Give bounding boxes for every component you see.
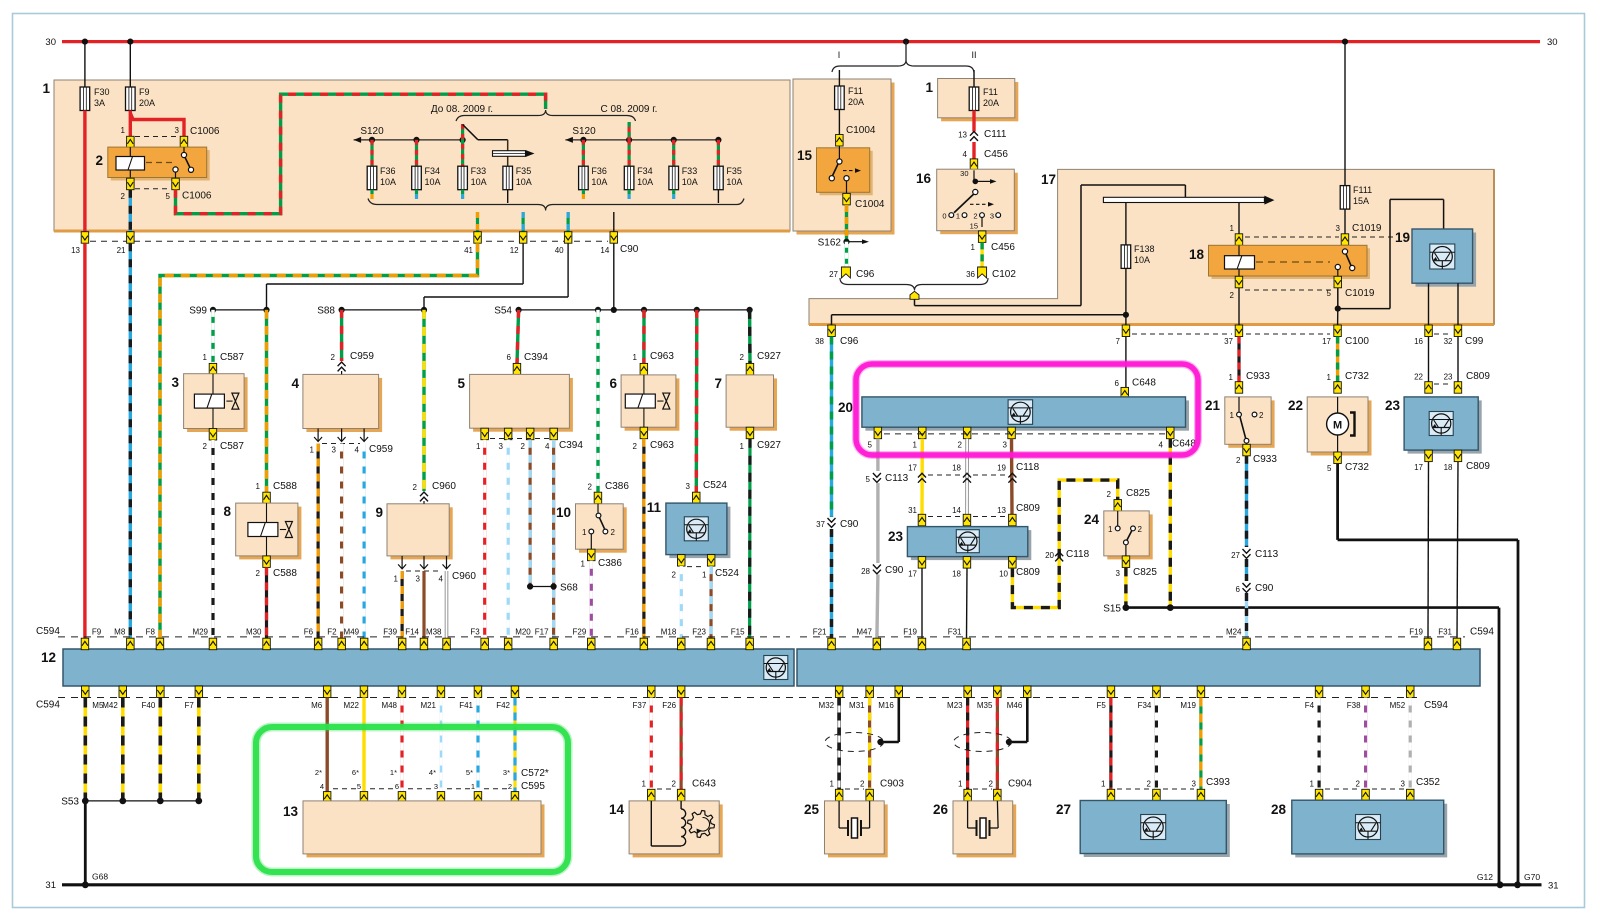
svg-text:F2: F2: [327, 628, 337, 637]
pin 3 C825: [1122, 556, 1130, 568]
label C96-27: [856, 269, 875, 280]
connector C809 dashed: [928, 516, 1006, 518]
dot S88 left: [339, 307, 345, 313]
svg-text:M20: M20: [515, 628, 531, 637]
svg-text:0: 0: [942, 211, 946, 220]
svg-text:M16: M16: [878, 701, 894, 710]
svg-text:2: 2: [331, 353, 336, 362]
ground G12: [1497, 881, 1504, 888]
svg-text:C809: C809: [1466, 461, 1490, 472]
svg-text:2: 2: [611, 528, 616, 537]
wire 23-17 to bus F19: [921, 568, 923, 638]
svg-text:I: I: [838, 50, 841, 60]
svg-text:20A: 20A: [848, 97, 864, 107]
svg-text:M30: M30: [246, 628, 262, 637]
pin 1 C352: [1315, 789, 1323, 801]
relay 2 switch: [173, 147, 194, 178]
svg-text:1: 1: [394, 575, 399, 584]
label 1 C386: [581, 558, 623, 569]
wire block9-3 to bus F14 (brown): [422, 571, 425, 639]
svg-text:1: 1: [1230, 224, 1235, 233]
pin 1 C643: [648, 789, 656, 801]
label 27 C113: [1231, 549, 1279, 560]
wire C90-6 to bus M24 (lightblue/black): [1245, 593, 1248, 639]
svg-text:F19: F19: [1409, 628, 1423, 637]
pin 2 C648: [963, 427, 971, 439]
svg-text:1: 1: [1310, 780, 1315, 789]
relay 2 coil: [116, 147, 145, 177]
svg-text:C524: C524: [703, 480, 727, 491]
svg-text:7: 7: [714, 376, 722, 391]
svg-text:M47: M47: [856, 628, 872, 637]
bus 12 bar right: [797, 649, 1480, 686]
wire bus30 to F111: [1344, 42, 1346, 186]
pin 17 C100: [1334, 325, 1342, 337]
pin 1 C1006: [127, 136, 135, 148]
wire S99 to block3 (green/white): [211, 310, 214, 364]
wire C648-2 to C809-14 (white): [965, 439, 969, 515]
svg-text:10A: 10A: [637, 177, 653, 187]
fuse F11 (block15): [835, 86, 845, 110]
label F138 10A: [1134, 244, 1155, 265]
svg-text:C959: C959: [369, 444, 393, 455]
pin block13-5: [360, 792, 368, 804]
wire F7 to S53 (yellow/black): [197, 698, 201, 801]
pin 3 C393: [1197, 789, 1205, 801]
svg-text:1: 1: [581, 560, 586, 569]
dot S120-2 F33: [671, 137, 677, 143]
box label 10: [556, 505, 571, 520]
svg-text:5: 5: [1327, 289, 1332, 298]
svg-text:F33: F33: [471, 166, 487, 176]
svg-text:M29: M29: [192, 628, 208, 637]
pin 2 C643: [677, 789, 685, 801]
label 17 C100: [1322, 336, 1369, 347]
svg-text:3: 3: [1192, 780, 1197, 789]
label C903: [830, 779, 905, 790]
svg-text:2*: 2*: [315, 768, 322, 777]
svg-text:1: 1: [1101, 780, 1106, 789]
wire block4-4 to bus M49 (lightblue/white): [363, 444, 366, 639]
box label 11: [647, 500, 662, 515]
wire M19 to C393-3 (green/orange): [1199, 698, 1202, 790]
svg-text:C96: C96: [840, 336, 859, 347]
node S15 line: [1126, 606, 1499, 609]
box label 23r: [1385, 398, 1401, 413]
svg-text:5: 5: [1327, 464, 1332, 473]
svg-text:S15: S15: [1103, 604, 1121, 615]
wire block4-3 to bus F2 (brown/white): [340, 444, 343, 639]
wire bus30 to F9: [129, 42, 131, 87]
fuse F35-2: [714, 166, 724, 190]
svg-text:1: 1: [256, 482, 261, 491]
label 27: [829, 270, 838, 279]
svg-text:17: 17: [908, 464, 917, 473]
label 6 C90: [1236, 583, 1274, 594]
label C393: [1101, 777, 1230, 789]
box label 3: [171, 375, 179, 390]
block 23 body: [907, 527, 1031, 561]
stub F33-2 bottom: [672, 190, 675, 199]
block 10 switch: [582, 504, 615, 549]
label pin1 relay18: [1230, 224, 1235, 233]
label C118 row: [908, 462, 1040, 473]
block 9 body: [387, 504, 453, 560]
dot S120-1 F36: [369, 137, 375, 143]
wire pin5 junction to C100-17: [1337, 309, 1339, 325]
wire into block9: [423, 501, 425, 504]
pin 6 C394: [513, 363, 521, 375]
node S120 line group2: [565, 137, 718, 143]
pin 41: [474, 232, 482, 244]
svg-text:1: 1: [913, 440, 918, 449]
pin 1 C904: [964, 789, 972, 801]
svg-text:1: 1: [203, 353, 208, 362]
wire F5 to C393-1 (black/red): [1109, 698, 1112, 790]
label 2 C587: [203, 441, 245, 452]
connector C113-27 chevrons: [1243, 549, 1251, 558]
ignition switch 16 body: [937, 169, 1018, 234]
wire block11-2 to bus M18 (lightblue/white): [680, 566, 683, 638]
svg-text:10A: 10A: [1134, 255, 1150, 265]
svg-text:F15: F15: [731, 628, 745, 637]
box label 21: [1205, 398, 1221, 413]
pin 3 C1019: [1341, 234, 1349, 246]
wire M35 to C904-2 (brown/red): [996, 698, 999, 790]
label 28 C90: [861, 565, 904, 576]
label 1 C927: [740, 440, 782, 451]
pin 17 C809b: [918, 557, 926, 569]
box label 8: [223, 504, 231, 519]
fuse F35-1: [503, 166, 513, 190]
box label 26: [933, 802, 949, 817]
wire pin14 to S54: [613, 243, 615, 310]
wire M6 to block13 (brown): [326, 698, 329, 793]
svg-text:F9: F9: [92, 628, 102, 637]
wire C933-2 to C113-27 (blue/black): [1245, 456, 1248, 547]
wire C90-28 to bus M47 (gray): [877, 575, 878, 639]
pin 1 C587: [209, 363, 217, 375]
svg-text:3: 3: [1401, 780, 1406, 789]
svg-text:F26: F26: [662, 701, 676, 710]
label C90 box1: [620, 244, 639, 255]
wire block3 to bus M29 (black/white): [211, 440, 214, 639]
pin 13: [81, 232, 89, 244]
svg-text:2: 2: [1259, 411, 1264, 420]
svg-text:C732: C732: [1345, 371, 1369, 382]
svg-text:F3: F3: [470, 628, 480, 637]
box label 20: [838, 400, 853, 415]
wire S88 to block9 (green/yellow): [422, 310, 425, 491]
label F36-1: [380, 166, 396, 187]
box label 1: [42, 81, 50, 96]
dot S120-2 F34: [626, 137, 632, 143]
label S54: [494, 306, 512, 317]
svg-text:3: 3: [1003, 440, 1008, 449]
svg-text:3: 3: [434, 782, 438, 791]
label C1004 bottom: [855, 199, 885, 210]
wire pentagon to block17: [915, 185, 1186, 306]
stub F34-2 bottom: [627, 190, 630, 199]
svg-text:M38: M38: [426, 628, 442, 637]
svg-text:5: 5: [166, 192, 171, 201]
pin 2 C963: [640, 427, 648, 439]
svg-text:28: 28: [1271, 802, 1287, 817]
label pin1: [121, 126, 126, 135]
junction dot F111 tap: [1342, 39, 1348, 45]
box label 7: [714, 376, 722, 391]
box label 16: [916, 171, 932, 186]
box label 12: [41, 650, 56, 665]
svg-text:18: 18: [1189, 247, 1205, 262]
junction dot pin5: [1335, 306, 1341, 312]
svg-text:4: 4: [1159, 440, 1164, 449]
pin 2 C588: [263, 556, 271, 568]
fuse F36-1: [367, 166, 377, 190]
svg-text:S54: S54: [494, 306, 512, 317]
connector C594 bottom dashed: [58, 697, 1420, 699]
svg-text:F41: F41: [459, 701, 473, 710]
svg-text:6: 6: [395, 782, 399, 791]
connector C1019 bottom dashed: [1245, 289, 1332, 291]
wire brace-I to F11-15: [838, 70, 840, 86]
svg-text:2: 2: [672, 571, 677, 580]
label F36-2: [591, 166, 607, 187]
connector C394 bottom dashed: [490, 438, 549, 440]
svg-text:C1006: C1006: [182, 191, 212, 202]
svg-text:До 08. 2009 г.: До 08. 2009 г.: [431, 104, 493, 115]
wire pin41 to bus F8 (green/orange): [160, 243, 478, 638]
label S162: [818, 238, 842, 249]
box label 4: [291, 376, 299, 391]
label 2 C933: [1236, 454, 1277, 465]
label 4 C456: [963, 149, 1009, 160]
svg-text:31: 31: [45, 880, 56, 891]
label 1 C456 bottom: [971, 242, 1016, 253]
svg-text:5: 5: [866, 475, 871, 484]
label C524 bottom: [672, 568, 740, 580]
svg-text:C394: C394: [559, 440, 583, 451]
svg-text:F40: F40: [142, 701, 156, 710]
svg-text:M35: M35: [977, 701, 993, 710]
svg-text:18: 18: [1444, 463, 1453, 472]
pin 2 C386: [594, 492, 602, 504]
svg-text:5*: 5*: [466, 768, 473, 777]
svg-text:12: 12: [41, 650, 56, 665]
svg-text:37: 37: [1224, 337, 1233, 346]
svg-text:S162: S162: [818, 238, 842, 249]
pin 5 C1006: [172, 178, 180, 190]
svg-text:F31: F31: [948, 628, 962, 637]
label F33-2: [682, 166, 698, 187]
label C594 bottom-right: [1424, 700, 1448, 711]
wire block5-4 to bus F17 (brown/lightblue): [552, 440, 555, 639]
junction dot F30 tap: [82, 39, 88, 45]
brace group 2: [546, 110, 636, 121]
label C809 row: [908, 503, 1040, 515]
svg-text:2: 2: [1236, 456, 1241, 465]
pin C394-3: [504, 428, 512, 440]
dot S53 c: [157, 798, 164, 805]
junction dot brace I/II tap: [903, 39, 909, 45]
label S15: [1103, 604, 1121, 615]
wire F11 to C111 (red): [972, 111, 975, 132]
dot S53 b: [119, 798, 126, 805]
svg-text:6*: 6*: [352, 768, 359, 777]
stub F33-1 bottom: [461, 190, 464, 199]
svg-text:C1019: C1019: [1352, 223, 1382, 234]
block 22 body: [1307, 397, 1371, 456]
connector C648 bottom dashed: [884, 433, 1165, 435]
label F34-1: [425, 166, 441, 187]
wire S15 to G12 (ground): [1498, 608, 1501, 885]
pin 16 C99: [1425, 325, 1433, 337]
pin 18 C809r: [1454, 450, 1462, 462]
relay box housing (block 15 carrier): [793, 79, 895, 235]
fuse F34-2: [624, 166, 634, 190]
label C809 bottom: [908, 567, 1040, 579]
svg-text:C594: C594: [1470, 627, 1494, 638]
svg-text:22: 22: [1288, 398, 1303, 413]
wire C648-1 to C809-31 (yellow): [920, 439, 924, 515]
block 25 sensor element: [839, 801, 870, 838]
block 27 body: [1080, 801, 1230, 858]
pin 2 C825: [1114, 500, 1122, 512]
box label 15: [797, 148, 813, 163]
dot S120-2 F35: [715, 137, 721, 143]
wire S54 to block7 (green/black): [748, 310, 752, 364]
connector C903 dashed: [845, 788, 864, 790]
wire M16 shield drain: [877, 698, 899, 746]
wire pin12 to S99: [267, 243, 524, 310]
svg-text:1: 1: [925, 80, 933, 95]
svg-text:C456: C456: [991, 242, 1015, 253]
wire pin2 to box edge (blue/black): [129, 190, 132, 233]
connector C352 dashed: [1325, 788, 1404, 790]
wire C100-7 to C648-6: [1125, 337, 1127, 388]
label 13 C111: [958, 129, 1007, 140]
label F33-1: [471, 166, 487, 187]
svg-text:1: 1: [633, 353, 638, 362]
relay 18 switch: [1335, 249, 1355, 276]
svg-text:C594: C594: [36, 626, 60, 637]
node S54 line: [519, 309, 750, 311]
svg-text:13: 13: [283, 804, 299, 819]
pin 13 C809: [1009, 514, 1017, 526]
bus 12 icon: [764, 656, 788, 680]
svg-text:F16: F16: [625, 628, 639, 637]
svg-text:C90: C90: [840, 519, 859, 530]
label 12: [510, 246, 519, 255]
svg-text:C960: C960: [432, 481, 456, 492]
fuse F111: [1340, 186, 1350, 210]
wire F30 to pin13 (red): [83, 111, 86, 233]
svg-text:1: 1: [740, 442, 745, 451]
svg-text:37: 37: [816, 520, 825, 529]
wire M5 to S53 (yellow/black): [84, 698, 88, 801]
pin 17 C809r: [1425, 450, 1433, 462]
svg-text:3: 3: [332, 446, 337, 455]
svg-text:2: 2: [95, 153, 103, 168]
block 10 body: [576, 504, 627, 553]
wire pin38 to F138 junction: [832, 315, 1126, 325]
svg-text:C96: C96: [856, 269, 875, 280]
svg-text:1: 1: [121, 126, 126, 135]
svg-text:C927: C927: [757, 440, 781, 451]
switch 15 contacts: [829, 146, 861, 193]
pin 1 C524b: [707, 555, 715, 567]
svg-text:F11: F11: [983, 87, 998, 97]
svg-text:1: 1: [971, 243, 976, 252]
label 2 C927: [740, 351, 782, 362]
wire block5-3 to bus M20 (lightblue/white): [507, 440, 510, 639]
label 22 23 C809: [1414, 371, 1490, 382]
connector C1019 top dashed: [1245, 236, 1395, 238]
connector C90-6 chevrons: [1243, 583, 1251, 592]
box label 28: [1271, 802, 1287, 817]
svg-text:5: 5: [457, 376, 465, 391]
label C1006 top: [190, 126, 220, 137]
svg-text:4: 4: [291, 376, 299, 391]
svg-text:M18: M18: [661, 628, 677, 637]
block 24 body: [1104, 511, 1153, 560]
relay 18 coil: [1225, 245, 1255, 276]
pin 14: [610, 232, 618, 244]
wire bus30 to F30: [84, 42, 86, 87]
svg-text:6: 6: [1115, 379, 1120, 388]
svg-text:4: 4: [545, 442, 550, 451]
svg-text:3: 3: [686, 482, 691, 491]
wire brace to pin12: [521, 212, 524, 233]
connector C643 dashed: [657, 788, 675, 790]
svg-text:23: 23: [888, 529, 904, 544]
svg-text:S88: S88: [317, 306, 335, 317]
svg-text:M49: M49: [344, 628, 360, 637]
node S99 line: [213, 309, 267, 311]
label F35-2: [726, 166, 742, 187]
bus 12 top pin labels: [92, 628, 1453, 637]
svg-text:4: 4: [355, 446, 360, 455]
svg-text:C111: C111: [984, 129, 1007, 140]
svg-text:C99: C99: [1465, 336, 1484, 347]
label F30 3A: [94, 87, 110, 108]
connector C959-2 chevrons: [338, 362, 346, 371]
box label 14: [609, 802, 625, 817]
wire F41 to block13 (blue/white): [476, 698, 479, 793]
wire M31 to C903-2 (brown/yellow): [868, 698, 871, 790]
box label 19: [1395, 230, 1410, 245]
svg-text:1: 1: [1230, 411, 1235, 420]
block 6 solenoid valve: [625, 375, 670, 427]
svg-text:18: 18: [952, 464, 961, 473]
label II: [971, 50, 976, 60]
label 37 C90: [816, 519, 859, 530]
svg-text:C456: C456: [984, 149, 1008, 160]
wire C825-3 to S15 (yellow/black): [1124, 567, 1127, 607]
box label 23: [888, 529, 904, 544]
label S120 group2: [572, 126, 596, 137]
svg-text:C1004: C1004: [855, 199, 885, 210]
label 30 right: [1547, 37, 1558, 48]
pin block13-1: [474, 792, 482, 804]
wire F4 to C352-1 (black/white): [1317, 698, 1320, 790]
label 2 C960: [413, 481, 457, 492]
label 38 C96: [815, 336, 859, 347]
svg-text:C386: C386: [605, 481, 629, 492]
svg-text:C732: C732: [1345, 462, 1369, 473]
pin 15 C456: [978, 231, 986, 243]
connector C572/C595 labels: [315, 768, 549, 792]
